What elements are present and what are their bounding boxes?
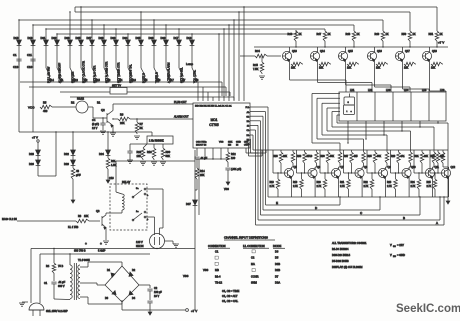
svg-text:+7 V: +7 V [438, 41, 444, 45]
ground R7 [134, 135, 140, 137]
svg-text:R7: R7 [140, 122, 144, 126]
wire OSC pin down [196, 148, 198, 156]
wire matrix column 5 drop [69, 12, 71, 40]
wire Q18 emitter rail [429, 47, 431, 52]
resistor R48 1K [353, 30, 355, 31]
display divider 2 [374, 92, 376, 121]
transistor Q5 [284, 168, 293, 177]
display divider 3 [392, 92, 394, 121]
resistor R37b base B [363, 150, 365, 152]
svg-text:R29: R29 [391, 156, 396, 158]
resistor R46 1K [295, 30, 297, 31]
svg-text:2.7K: 2.7K [317, 186, 322, 188]
svg-text:D3A: D3A [275, 281, 280, 285]
wire digit 6 bottom pin [437, 121, 439, 123]
svg-text:400: 400 [43, 109, 48, 113]
op-amp U1 MC1 C7705 IC body [193, 103, 250, 148]
transistor Q11 [425, 168, 434, 177]
wire Q13 emitter rail [289, 47, 291, 52]
wire switch S17 to rail [170, 81, 171, 82]
switch S2 [81, 68, 86, 77]
wire segment loop 2 [317, 97, 340, 99]
capacitor C1 [16, 58, 21, 60]
svg-text:D18: D18 [14, 36, 19, 40]
wire cap col down [32, 61, 34, 132]
wire matrix column 6 drop [80, 7, 82, 40]
wire diode D36 to switch [153, 45, 155, 68]
switch S16 [128, 68, 133, 77]
resistor R30 [162, 144, 164, 148]
svg-text:+7 V: +7 V [32, 136, 38, 140]
resistor R36b base B [316, 150, 318, 152]
wire switch S6 to rail [158, 81, 159, 82]
svg-text:NEON: NEON [136, 244, 144, 248]
resistor R33b base B [292, 150, 294, 152]
wire switch S4 to rail [120, 81, 121, 82]
resistor R5 400 [40, 105, 53, 109]
capacitor C4 8uF [100, 122, 105, 124]
svg-text:R10: R10 [137, 151, 142, 154]
svg-text:2.7K: 2.7K [340, 186, 345, 188]
diode D30 [164, 40, 169, 45]
wire matrix rail 3 [60, 91, 230, 93]
svg-text:IND IN2 IN1 NZ EN ILL 2:1 D1 C: IND IN2 IN1 NZ EN ILL 2:1 D1 C1 2:1 [195, 105, 232, 107]
svg-text:DISPLAY: (6) OU DL330M: DISPLAY: (6) OU DL330M [332, 265, 362, 269]
wire R5 to R1 [53, 106, 76, 108]
svg-text:16 V: 16 V [154, 295, 159, 298]
wire +7V output [121, 302, 123, 310]
svg-text:D3B: D3B [275, 262, 280, 266]
wire matrix column 8 drop [103, 25, 105, 40]
wire Q10 collector [408, 167, 410, 169]
display 7-segment digit [344, 97, 355, 105]
svg-text:2.7K: 2.7K [364, 186, 369, 188]
wire IC pin 2 staircase [250, 111, 266, 113]
wire mag line [17, 220, 76, 222]
svg-text:20K: 20K [120, 121, 125, 125]
svg-text:R16: R16 [147, 151, 152, 154]
svg-text:E: E [276, 201, 278, 205]
svg-text:1K: 1K [357, 33, 360, 36]
wire diode D29 to switch [103, 45, 105, 68]
transistor Q7 [331, 168, 340, 177]
ground R13 [72, 180, 74, 196]
wire IC pin 9 staircase [249, 142, 251, 144]
svg-text:EN: EN [228, 145, 231, 147]
wire segment loop 5 [332, 111, 340, 113]
svg-text:10K: 10K [319, 67, 324, 70]
capacitor C6 .001uF [227, 163, 229, 167]
svg-text:120 V: 120 V [136, 240, 143, 244]
wire segment bus B [258, 219, 440, 221]
svg-text:C11: C11 [27, 53, 32, 57]
wire diode D33 to switch [69, 45, 71, 68]
wire driver 6 to digit 6 [429, 60, 431, 91]
wire digit 2 bottom pin [365, 121, 367, 139]
diode D29 [102, 40, 107, 45]
resistor R29b base B [410, 150, 412, 152]
transistor Q18 [422, 51, 431, 60]
diode D31 [44, 40, 49, 45]
svg-text:R30: R30 [166, 151, 171, 154]
wire Q15 emitter rail [345, 47, 347, 52]
svg-text:C7705: C7705 [209, 123, 219, 127]
svg-text:C2: C2 [154, 287, 158, 290]
wire CNT OUT pin [245, 148, 247, 153]
wire base feed 5 [366, 150, 368, 173]
svg-text:R1: R1 [97, 101, 101, 105]
wire driver 2 to digit 2 [317, 60, 319, 83]
wire diode D33 to switch [115, 45, 117, 68]
svg-text:LD6: LD6 [440, 89, 445, 92]
svg-text:b: b [147, 195, 149, 197]
svg-text:R36: R36 [297, 156, 302, 158]
svg-text:DD: DD [393, 256, 396, 258]
wire matrix column 13 drop [165, 25, 167, 40]
wire diode D32 to switch [56, 45, 58, 68]
svg-text:D37: D37 [186, 202, 191, 206]
wire base feed 7 [413, 150, 415, 173]
resistor R18 2.7K [277, 173, 279, 179]
svg-text:MA: MA [251, 262, 255, 266]
svg-text:S8: S8 [195, 78, 199, 82]
svg-text:100 µF: 100 µF [154, 291, 162, 294]
svg-text:R3: R3 [78, 215, 82, 218]
transistor Q6 [308, 168, 317, 177]
svg-text:C1, C2 = CAL: C1, C2 = CAL [222, 299, 239, 303]
transistor Q16 [367, 51, 376, 60]
switch S5 [141, 68, 146, 77]
svg-text:.01 µF: .01 µF [58, 281, 66, 284]
capacitor C3 100uF [147, 300, 152, 302]
wire base feed 8 [429, 150, 431, 173]
potentiometer R1 [76, 101, 88, 113]
svg-text:D19: D19 [28, 36, 33, 40]
wire R1 to Q2 base [88, 106, 93, 108]
wire digit 1 bottom pin [347, 121, 349, 143]
svg-text:Q3: Q3 [96, 209, 100, 213]
wire Q12 emitter [448, 177, 450, 197]
wire switch S15 to rail [96, 81, 97, 82]
svg-text:1K: 1K [328, 33, 331, 36]
svg-text:10K: 10K [431, 67, 436, 70]
diode D27 [90, 40, 95, 45]
switch S13 [70, 68, 75, 77]
resistor R44 10K [404, 62, 416, 66]
wire segment bus C [261, 214, 421, 216]
resistor R35 base A [374, 150, 376, 152]
svg-text:S2: S2 [84, 78, 88, 82]
wire R48 to rail [353, 42, 355, 47]
svg-text:D2B: D2B [275, 268, 280, 272]
svg-text:LD4: LD4 [404, 89, 409, 92]
svg-text:D26: D26 [29, 162, 34, 166]
svg-text:B: B [403, 216, 405, 220]
ground C4 [100, 130, 106, 132]
wire matrix column 11 drop [140, 12, 142, 40]
svg-text:OSC 50Hz: OSC 50Hz [196, 141, 206, 143]
wire segment bus D [263, 209, 380, 211]
svg-text:Q17: Q17 [405, 50, 410, 53]
svg-text:R47: R47 [317, 33, 322, 36]
svg-text:D5-D39 IN458: D5-D39 IN458 [332, 259, 349, 263]
svg-text:10K: 10K [137, 155, 142, 158]
wire IC pin 5 staircase [250, 124, 258, 126]
resistor R10 [143, 144, 147, 148]
resistor R30b base B [339, 150, 341, 152]
diode D18 [17, 40, 22, 45]
svg-text:R45: R45 [253, 63, 258, 67]
wire matrix column 1 drop [18, 20, 20, 40]
wire IC pin 3 staircase [250, 115, 263, 117]
svg-text:R20: R20 [317, 182, 322, 184]
svg-text:D32: D32 [52, 36, 57, 40]
svg-text:Q18: Q18 [432, 50, 437, 53]
resistor R36 base A [304, 150, 306, 152]
svg-text:50K: 50K [166, 155, 171, 158]
diode D22 [71, 150, 76, 155]
svg-text:F.I. 1 TAB: F.I. 1 TAB [68, 226, 79, 229]
wire relay top to VSS line [115, 161, 117, 184]
svg-text:R21: R21 [340, 182, 345, 184]
svg-text:DIODE: DIODE [273, 244, 281, 248]
resistor R20 2.7K [324, 173, 326, 179]
capacitor C5 .01uF [194, 156, 199, 158]
svg-text:1K: 1K [299, 33, 302, 36]
svg-text:Lamp: Lamp [186, 62, 193, 66]
wire IC pin 8 staircase [249, 138, 252, 140]
ground Q3 [103, 240, 109, 242]
resistor R50 1K [409, 30, 411, 31]
svg-text:ALARM OUT: ALARM OUT [174, 116, 189, 119]
svg-text:5a: 5a [136, 188, 139, 190]
wire Q16 emitter rail [374, 47, 376, 52]
wire segment loop 4 [327, 107, 340, 109]
svg-text:TB-12: TB-12 [215, 281, 223, 285]
wire diode D18 to switch [18, 45, 20, 68]
svg-text:R2: R2 [71, 101, 75, 105]
svg-text:Q2: Q2 [101, 108, 105, 112]
resistor R41 10K [319, 62, 331, 66]
svg-text:R12: R12 [231, 153, 236, 156]
svg-text:R50: R50 [402, 33, 407, 36]
display divider 5 [428, 92, 430, 121]
resistor R45 10K [431, 62, 443, 66]
wire R51 to rail [436, 42, 438, 47]
svg-text:GND: GND [236, 141, 241, 143]
svg-text:R1/22: R1/22 [77, 97, 84, 101]
capacitor C8 [127, 150, 132, 152]
svg-text:C1, C2 = ALT: C1, C2 = ALT [222, 294, 238, 298]
diode D26 [37, 155, 39, 160]
svg-text:D16: D16 [187, 36, 192, 40]
wire VSS pin down [220, 148, 222, 159]
switch S17 [166, 68, 171, 77]
diode D34 [126, 40, 131, 45]
svg-text:7.5K: 7.5K [253, 67, 259, 71]
svg-text:IN/OUT IN: IN/OUT IN [196, 145, 207, 147]
svg-text:D1: D1 [107, 269, 111, 272]
wire IC pin 1 staircase [250, 106, 268, 108]
resistor R43 10K [376, 62, 388, 66]
resistor R45 7.5K [261, 56, 263, 62]
wire driver 1 to digit 1 [289, 60, 291, 80]
svg-text:50K: 50K [330, 156, 335, 158]
wire col73 drop [72, 132, 74, 150]
svg-text:R5: R5 [43, 101, 47, 105]
svg-text:C1: C1 [215, 250, 219, 254]
svg-text:600 V: 600 V [58, 285, 65, 288]
resistor R11 1.5K [107, 155, 109, 158]
svg-text:Q13: Q13 [292, 50, 297, 53]
svg-text:(8 µF): (8 µF) [92, 122, 99, 126]
wire top bus 3 [19, 19, 383, 21]
svg-text:R4: R4 [46, 265, 50, 268]
resistor R25 2.7K [434, 173, 436, 179]
svg-text:D33: D33 [111, 36, 116, 40]
svg-text:R33: R33 [274, 156, 279, 158]
wire +7V rail [254, 46, 448, 48]
svg-text:RELAY: RELAY [122, 180, 131, 184]
transistor Q13 [282, 51, 291, 60]
wire junction bar [196, 158, 229, 160]
svg-text:MAG CL2 IN: MAG CL2 IN [2, 217, 17, 221]
wire R14 down [196, 180, 198, 190]
svg-text:2.7K: 2.7K [387, 186, 392, 188]
svg-text:C1: C1 [44, 282, 48, 285]
wire Q7 collector [338, 167, 340, 169]
wire digit 3 bottom pin [383, 121, 385, 135]
wire base feed 4 [343, 150, 345, 173]
wire matrix column 9 drop [115, 29, 117, 40]
ground Q2 emitter [110, 132, 116, 134]
wire driver 4 to digit 4 [374, 60, 376, 87]
diode D35 [139, 40, 144, 45]
wire matrix rail 4 [70, 96, 234, 98]
resistor R51 1K [436, 30, 438, 31]
svg-text:S1: S1 [60, 78, 64, 82]
display divider 1 [356, 92, 358, 121]
svg-text:µFF: µFF [76, 173, 81, 177]
capacitor C11 [30, 58, 35, 60]
svg-text:C13: C13 [109, 177, 114, 180]
svg-text:V: V [390, 243, 392, 247]
diode D24 [106, 150, 111, 155]
svg-text:R22: R22 [364, 182, 369, 184]
resistor R44 [240, 55, 255, 57]
wire upper contact to lamp [146, 188, 163, 190]
svg-text:Q14: Q14 [320, 50, 325, 53]
resistor R23 2.7K [395, 173, 397, 179]
svg-text:MB: MB [215, 268, 219, 272]
diode D33 [114, 40, 119, 45]
wire matrix column 3 drop [45, 29, 47, 40]
wire digit 4 bottom pin [401, 121, 403, 131]
wire row feed jogs [253, 149, 270, 151]
diode D37 [194, 190, 196, 200]
wire Q10 emitter [408, 177, 410, 197]
wire driver 3 to digit 3 [345, 60, 347, 85]
svg-text:+: + [100, 242, 102, 246]
svg-text:R30: R30 [321, 156, 326, 158]
ground emitter bus [447, 197, 449, 201]
wire matrix column 2 drop [32, 25, 34, 40]
svg-text:R44: R44 [255, 49, 260, 53]
wire switch S1 to rail [61, 81, 62, 82]
svg-text:CHANNEL INPUT DEFINITIONS: CHANNEL INPUT DEFINITIONS [224, 236, 268, 240]
svg-text:D28: D28 [29, 152, 34, 156]
svg-text:5K: 5K [140, 126, 143, 130]
lamp 120V neon [150, 234, 165, 249]
svg-text:VSS: VSS [224, 188, 229, 191]
svg-text:10K: 10K [291, 67, 296, 70]
svg-text:D27: D27 [87, 36, 92, 40]
resistor R34 base A [437, 150, 439, 152]
svg-text:R35: R35 [368, 156, 373, 158]
wire lower contact to lamp [146, 216, 155, 218]
svg-text:+: + [85, 242, 87, 246]
svg-text:Q11: Q11 [435, 166, 440, 169]
wire matrix column 15 drop [191, 34, 193, 40]
svg-text:NF10: NF10 [307, 156, 313, 158]
wire Q11 collector [432, 167, 434, 169]
wire pin stub [212, 148, 214, 159]
svg-text:R46: R46 [288, 33, 293, 36]
svg-text:Q15: Q15 [348, 50, 353, 53]
svg-text:VCO: VCO [28, 106, 35, 110]
resistor R29 base A [398, 150, 400, 152]
wire R44 to Q13 base [268, 55, 281, 57]
resistor R33 base A [280, 150, 282, 152]
svg-text:10K: 10K [376, 67, 381, 70]
svg-text:20K: 20K [424, 156, 429, 158]
label table row 2 [215, 256, 218, 259]
svg-text:V: V [390, 253, 392, 257]
resistor R7 5K [136, 119, 138, 122]
svg-text:D20: D20 [64, 162, 69, 166]
svg-text:ILL CONNECTION: ILL CONNECTION [243, 244, 265, 248]
wire base feed 6 [390, 150, 392, 173]
wire base feed 3 [319, 150, 321, 173]
svg-text:R48: R48 [346, 33, 351, 36]
wire primary [69, 264, 71, 265]
switch S7 [179, 68, 184, 77]
resistor R6 20K [118, 117, 131, 121]
svg-text:S5: S5 [144, 78, 148, 82]
display divider 4 [410, 92, 412, 121]
wire VSS vertical [194, 150, 196, 190]
wire IC top pin cluster [197, 82, 199, 101]
relay coil [115, 184, 117, 192]
svg-text:S13: S13 [73, 78, 78, 82]
wire Q17 emitter rail [402, 47, 404, 52]
ground C2 C3 [149, 308, 151, 312]
svg-text:D2: D2 [132, 269, 136, 272]
wire matrix column 4 drop [56, 34, 58, 40]
diode D28 [36, 150, 41, 155]
wire +7V drop [37, 142, 39, 150]
svg-text:D29: D29 [99, 36, 104, 40]
wire segment loop 3 [322, 102, 340, 104]
switch S14 [46, 68, 51, 77]
svg-text:D5: D5 [275, 256, 279, 260]
svg-text:CCHR: CCHR [251, 274, 259, 278]
svg-text:LD2: LD2 [368, 89, 373, 92]
svg-text:20K: 20K [283, 156, 288, 158]
wire Q6 collector [314, 167, 316, 169]
transistor Q10 [402, 168, 411, 177]
svg-text:2.7K: 2.7K [411, 186, 416, 188]
